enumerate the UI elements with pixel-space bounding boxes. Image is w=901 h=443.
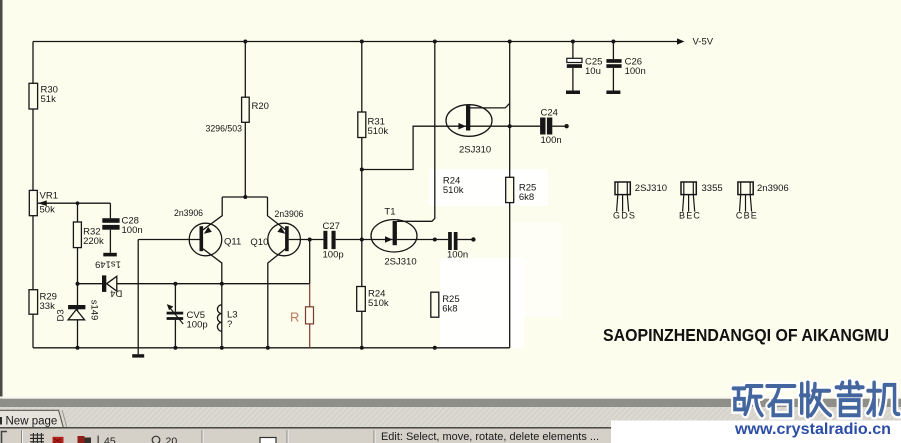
node gnd D3: [76, 346, 80, 350]
svg-text:VR1: VR1: [40, 191, 58, 202]
toolbar box icon: [260, 438, 276, 443]
svg-text:2n3906: 2n3906: [174, 208, 203, 219]
svg-text:45: 45: [104, 436, 116, 443]
wire U2 source line: [470, 125, 540, 127]
node Q10 base: [308, 238, 312, 242]
svg-text:?: ?: [227, 319, 232, 330]
node wiper R32: [76, 201, 80, 205]
tab New page: [0, 410, 67, 427]
wire C28 stems: [109, 203, 111, 253]
wire ground stem: [137, 240, 139, 355]
resistor R25 lower: [431, 292, 460, 317]
svg-text:Q11: Q11: [224, 236, 241, 247]
wire Q11 emitter: [203, 197, 222, 230]
wire T1 drain to rail: [397, 42, 435, 222]
svg-text:1s149: 1s149: [95, 258, 121, 269]
svg-text:20: 20: [166, 436, 178, 443]
capacitor C24: [540, 108, 562, 147]
ground under C26: [606, 91, 620, 95]
capacitor C25: [567, 57, 603, 78]
node C23 end: [471, 237, 475, 241]
logo yin: [836, 381, 863, 415]
logo shi: [767, 386, 795, 415]
toolbar grid icon: [30, 433, 44, 443]
wire top supply rail: [33, 41, 678, 43]
svg-text:220k: 220k: [83, 236, 104, 247]
wire gate L-path: [362, 126, 466, 169]
wire R31-R24 vertical: [361, 42, 363, 348]
resistor R25 upper: [506, 177, 537, 203]
svg-text:100n: 100n: [447, 250, 468, 261]
svg-text:10u: 10u: [585, 66, 601, 77]
svg-text:51k: 51k: [41, 94, 57, 105]
node CV5 top: [173, 282, 177, 286]
svg-text:GDS: GDS: [613, 211, 636, 221]
wire Q10 base: [289, 239, 310, 241]
svg-text:Edit: Select, move, rotate, de: Edit: Select, move, rotate, delete eleme…: [381, 431, 599, 443]
node T1 out: [433, 238, 437, 242]
wire Q10 collector: [268, 249, 286, 348]
svg-text:New page: New page: [6, 416, 58, 428]
node gnd R25: [433, 346, 437, 350]
wire Q11 collector L3: [203, 249, 222, 348]
svg-text:C27: C27: [323, 221, 340, 232]
node rail R25: [508, 40, 512, 44]
resistor R29: [29, 290, 57, 315]
svg-text:6k8: 6k8: [519, 192, 534, 203]
resistor R20: [206, 97, 269, 134]
toolbar tick: [98, 436, 99, 443]
node C27 R31: [360, 238, 364, 242]
node U2 out: [508, 124, 512, 128]
node C24 end: [564, 124, 568, 128]
svg-text:2n3906: 2n3906: [275, 209, 304, 220]
svg-text:2SJ310: 2SJ310: [635, 183, 667, 194]
resistor R red: [290, 284, 314, 348]
wire C25 stems: [572, 42, 574, 91]
wire R20 branch: [244, 42, 246, 198]
node gnd R24: [360, 346, 364, 350]
resistor R30: [29, 83, 58, 109]
node gnd Q10: [266, 346, 270, 350]
logo kuang: [733, 386, 762, 415]
svg-text:R: R: [290, 310, 299, 325]
FET T1: [371, 207, 417, 268]
svg-text:100p: 100p: [323, 250, 344, 261]
package 3355: [679, 182, 723, 221]
capacitor C27: [323, 221, 344, 261]
toolbar groove 2: [201, 430, 203, 443]
toolbar red icon 2: [78, 436, 92, 443]
toolbar groove 3: [286, 430, 288, 443]
logo shou: [801, 383, 831, 417]
svg-text:100p: 100p: [187, 320, 208, 331]
node rail C25: [571, 40, 575, 44]
svg-text:www.crystalradio.cn: www.crystalradio.cn: [734, 421, 891, 438]
white patch upper: [429, 169, 548, 206]
wire T1 source: [397, 239, 448, 241]
package 2n3906: [736, 182, 789, 221]
svg-text:2n3906: 2n3906: [757, 183, 789, 194]
white patch lower: [440, 258, 524, 348]
white patch right of R25: [512, 222, 562, 317]
svg-text:D4: D4: [110, 288, 122, 299]
svg-text:510k: 510k: [368, 298, 389, 309]
label R24 upper: [443, 176, 464, 197]
wire pair tail: [222, 196, 267, 198]
svg-text:C24: C24: [541, 108, 558, 119]
ground under C25: [566, 91, 580, 95]
left window edge: [0, 0, 3, 405]
logo ji: [868, 383, 899, 416]
resistor R32: [73, 222, 104, 248]
resistor R24 lower: [357, 287, 389, 312]
svg-text:50k: 50k: [40, 205, 56, 216]
svg-text:R20: R20: [252, 101, 269, 112]
wire CV5 stems: [174, 284, 176, 348]
tab bar bottom line: [0, 427, 901, 429]
wire node A vertical: [309, 240, 311, 284]
wire C27 leads: [310, 239, 362, 241]
svg-text:V-5V: V-5V: [693, 37, 714, 48]
node L3 top: [220, 282, 224, 286]
wire bottom ground rail: [33, 347, 510, 349]
node rail R31: [360, 40, 364, 44]
node rail R20: [243, 40, 247, 44]
diode D3: [56, 300, 100, 322]
svg-text:2SJ310: 2SJ310: [459, 145, 491, 156]
wire left vertical: [32, 42, 34, 348]
wire R32-D3 branch: [77, 203, 79, 348]
wire Q10 emitter: [268, 197, 286, 230]
svg-text:3296/503: 3296/503: [206, 124, 243, 135]
svg-text:33k: 33k: [40, 301, 56, 312]
ground main: [132, 354, 144, 357]
svg-text:T1: T1: [384, 207, 395, 218]
svg-text:D3: D3: [56, 309, 67, 321]
svg-text:510k: 510k: [368, 126, 389, 137]
wire R25 upper vertical: [509, 42, 511, 348]
wire T1 gate: [362, 239, 393, 241]
node rail T1 drain: [433, 40, 437, 44]
capacitor C26: [606, 57, 645, 78]
wire C24 out: [552, 125, 566, 127]
variable capacitor CV5: [167, 304, 208, 330]
wire U2 drain jog: [470, 103, 510, 108]
node rail C26: [611, 40, 615, 44]
inductor L3: [217, 305, 237, 331]
transistor Q10: [250, 209, 303, 256]
node gate L: [360, 168, 364, 172]
node gnd CV5: [173, 346, 177, 350]
package 2SJ310: [613, 182, 667, 221]
svg-text:100n: 100n: [122, 225, 143, 236]
svg-text:CBE: CBE: [736, 211, 758, 221]
wire C23 out: [458, 239, 474, 241]
svg-text:100n: 100n: [625, 66, 646, 77]
capacitor C28: [102, 216, 142, 237]
potentiometer VR1: [29, 190, 58, 215]
V-5V supply arrow: [677, 37, 714, 48]
svg-text:100n: 100n: [541, 135, 562, 146]
diode D4: [95, 258, 122, 298]
svg-text:BEC: BEC: [679, 211, 701, 221]
wire Q11 base: [138, 239, 199, 241]
svg-text:s149: s149: [89, 300, 100, 321]
svg-text:3355: 3355: [702, 183, 723, 194]
svg-text:Q10: Q10: [250, 237, 268, 248]
resistor R31: [358, 112, 389, 138]
bottom chrome bands: [0, 397, 901, 399]
wire VR1 wiper: [37, 202, 110, 204]
svg-text:SAOPINZHENDANGQI OF AIKANGMU: SAOPINZHENDANGQI OF AIKANGMU: [603, 325, 889, 345]
toolbar groove 4: [373, 430, 375, 443]
capacitor C23: [447, 232, 468, 261]
node tail: [243, 195, 247, 199]
toolbar partial icon left: [2, 432, 8, 443]
svg-text:2SJ310: 2SJ310: [384, 257, 416, 268]
watermark white bar: [611, 421, 901, 443]
FET U2: [446, 105, 492, 156]
node D4 left: [76, 282, 80, 286]
wire C26 stems: [612, 42, 614, 91]
wire D4 node: [78, 283, 310, 285]
ground under C28: [103, 253, 117, 257]
status toolbar: [0, 429, 901, 443]
toolbar groove 1: [21, 430, 23, 443]
toolbar red icon 1: [53, 437, 64, 443]
transistor Q11: [174, 208, 241, 256]
svg-text:6k8: 6k8: [442, 304, 457, 315]
toolbar magnifier 20: [152, 436, 177, 443]
node gnd L3: [220, 346, 224, 350]
svg-text:510k: 510k: [443, 185, 464, 196]
